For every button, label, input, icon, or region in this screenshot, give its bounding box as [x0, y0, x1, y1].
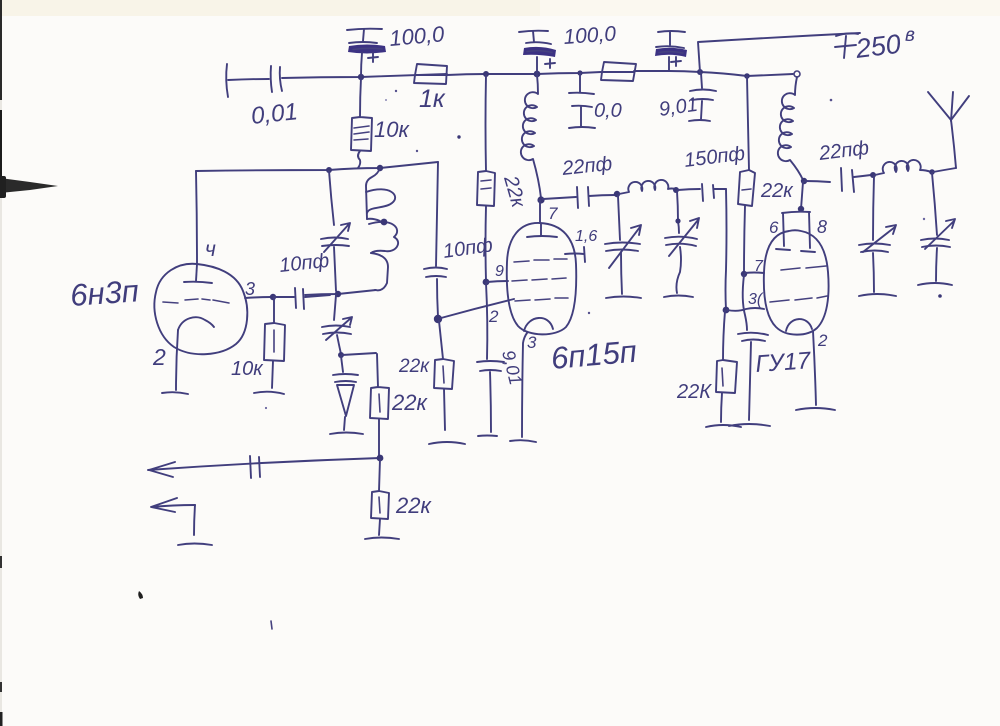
svg-text:ч: ч	[205, 238, 216, 261]
svg-text:2: 2	[152, 344, 166, 370]
svg-text:6: 6	[769, 218, 779, 237]
svg-text:2: 2	[488, 307, 499, 326]
svg-text:22К: 22К	[676, 381, 712, 403]
svg-text:9: 9	[495, 263, 504, 280]
svg-text:22к: 22к	[398, 356, 430, 377]
svg-text:22пф: 22пф	[817, 137, 871, 165]
svg-text:1,6: 1,6	[575, 228, 597, 245]
svg-text:10пф: 10пф	[278, 250, 330, 277]
svg-text:в: в	[905, 25, 915, 46]
svg-text:7: 7	[548, 204, 558, 223]
svg-text:100,0: 100,0	[563, 22, 617, 49]
svg-text:10к: 10к	[231, 358, 264, 380]
svg-text:3(: 3(	[748, 291, 764, 308]
svg-text:8: 8	[817, 217, 827, 237]
svg-text:0,0: 0,0	[594, 100, 622, 122]
svg-text:10пф: 10пф	[442, 234, 495, 263]
svg-text:250: 250	[853, 29, 902, 64]
svg-text:6п15п: 6п15п	[550, 334, 639, 376]
svg-text:22к: 22к	[760, 180, 794, 202]
svg-text:3: 3	[527, 333, 537, 352]
svg-text:6н3п: 6н3п	[69, 273, 140, 313]
svg-text:7: 7	[754, 258, 764, 275]
svg-text:0,01: 0,01	[250, 98, 299, 130]
svg-text:22к: 22к	[395, 493, 432, 518]
svg-text:9,01: 9,01	[658, 94, 700, 121]
svg-text:150пф: 150пф	[683, 143, 747, 172]
svg-text:22к: 22к	[499, 172, 530, 211]
svg-text:3: 3	[245, 279, 255, 299]
svg-text:22пф: 22пф	[560, 153, 613, 180]
svg-text:9,01: 9,01	[498, 348, 526, 387]
svg-text:100,0: 100,0	[388, 21, 446, 51]
svg-text:10к: 10к	[374, 117, 410, 142]
svg-text:2: 2	[817, 331, 828, 350]
svg-text:1к: 1к	[419, 85, 446, 113]
svg-text:ГУ17: ГУ17	[755, 347, 813, 378]
svg-text:22к: 22к	[391, 390, 428, 415]
